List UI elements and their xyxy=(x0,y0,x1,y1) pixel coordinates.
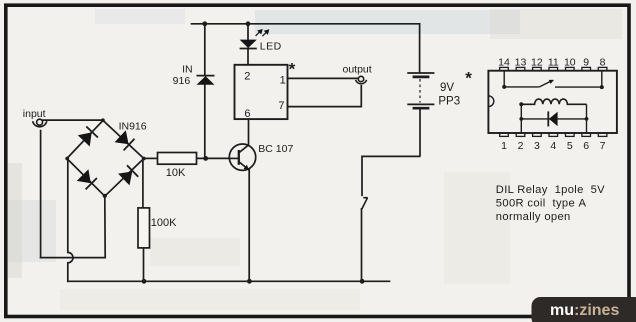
arm left-top xyxy=(67,120,103,158)
svg-text:500R coil type A: 500R coil type A xyxy=(496,198,587,210)
svg-text:12: 12 xyxy=(531,57,543,69)
relay pin 2 stub xyxy=(520,119,522,133)
svg-text:10K: 10K xyxy=(166,167,186,179)
relay pin numbers 1..7 xyxy=(501,140,606,152)
wire: top positive rail xyxy=(192,23,420,25)
relay clamp diode line xyxy=(521,118,586,120)
wire: relay pin1 to output tip xyxy=(288,77,359,79)
svg-text:*: * xyxy=(289,60,296,79)
svg-text:7: 7 xyxy=(278,100,284,112)
wire coil right to diode line xyxy=(586,104,588,119)
input jack SK1 xyxy=(33,119,47,127)
svg-text:4: 4 xyxy=(550,140,556,152)
svg-text:5: 5 xyxy=(567,140,573,152)
relay package notch xyxy=(488,96,493,107)
mu:zines watermark xyxy=(532,297,636,322)
relay RLA schematic box xyxy=(235,65,288,119)
svg-text:100K: 100K xyxy=(151,217,177,229)
svg-text:IN916: IN916 xyxy=(119,120,147,132)
bridge diode D4 (bottom->right) xyxy=(118,165,138,185)
LED LD1 symbol xyxy=(240,40,257,49)
transistor Q1 BC107 xyxy=(229,144,255,170)
resistor R2 100K xyxy=(138,208,150,248)
wire: battery positive drop xyxy=(419,24,421,72)
svg-text:9: 9 xyxy=(583,57,589,69)
wire: R1 to Q1 base xyxy=(197,157,230,159)
svg-text:9V: 9V xyxy=(440,82,454,94)
svg-text:11: 11 xyxy=(548,57,559,69)
resistor R1 10K xyxy=(158,153,197,165)
Q1 emitter arrow xyxy=(244,165,249,170)
relay contact stub from pin 8 xyxy=(601,71,603,87)
svg-text:1: 1 xyxy=(280,74,286,86)
wire: input sleeve run to bridge bottom node xyxy=(41,196,106,257)
svg-text:BC 107: BC 107 xyxy=(258,143,293,155)
LED lead from rail xyxy=(247,24,249,40)
svg-text:LED: LED xyxy=(260,41,282,53)
svg-text:2: 2 xyxy=(518,140,524,152)
svg-text:8: 8 xyxy=(600,57,606,69)
svg-text:10: 10 xyxy=(564,57,576,69)
wire: input sleeve down xyxy=(40,131,42,258)
svg-text:normally open: normally open xyxy=(496,211,571,223)
bridge rectifier arms xyxy=(67,120,144,196)
svg-text:6: 6 xyxy=(244,108,250,120)
wire: input tip to bridge top node xyxy=(43,119,103,121)
relay clamp diode symbol xyxy=(547,111,549,126)
arm left-bottom xyxy=(67,159,105,197)
svg-text:14: 14 xyxy=(498,57,510,69)
arm bottom-right xyxy=(105,159,144,197)
wire: Q1 emitter to bottom rail xyxy=(248,170,250,281)
relay contact switch xyxy=(504,80,602,87)
svg-text:13: 13 xyxy=(515,57,527,69)
svg-text:3: 3 xyxy=(534,140,540,152)
switch S1 xyxy=(362,198,368,209)
svg-text:1: 1 xyxy=(501,140,507,152)
relay package outline xyxy=(488,71,617,133)
LED light arrows xyxy=(256,30,269,36)
svg-text:DIL Relay 1pole 5V: DIL Relay 1pole 5V xyxy=(496,184,605,196)
battery B1 9V PP3 xyxy=(407,73,434,156)
diode D5 IN916 symbol xyxy=(197,76,215,85)
wire coil left to diode line xyxy=(520,104,522,119)
wire: bottom common rail xyxy=(68,280,390,282)
wire: R2 top lead xyxy=(142,159,144,208)
relay pin numbers 14..8 xyxy=(498,57,606,69)
svg-text:7: 7 xyxy=(600,140,606,152)
diode D5 IN916 clamp: anode lead xyxy=(204,24,206,76)
relay top pin tabs (14..8) xyxy=(500,67,607,70)
svg-text:output: output xyxy=(343,64,372,76)
relay contact stub from pin 14 xyxy=(503,71,505,87)
wire: battery negative to switch xyxy=(362,156,420,195)
junction dots on rails xyxy=(65,21,364,283)
svg-text:mu:zines: mu:zines xyxy=(550,302,619,319)
svg-text:6: 6 xyxy=(583,140,589,152)
relay pin 6 stub xyxy=(586,119,588,133)
wire: switch to bottom rail xyxy=(361,209,363,281)
wire: relay pin7 to output sleeve xyxy=(288,86,362,107)
svg-text:2: 2 xyxy=(244,71,250,83)
bridge diode D1 (left->top) xyxy=(78,127,98,147)
svg-text:PP3: PP3 xyxy=(438,96,460,108)
relay bottom pin tabs (1..7) xyxy=(500,133,607,136)
wire: bridge left node to bottom rail with hop xyxy=(68,159,73,282)
output jack SK2 xyxy=(356,76,367,84)
bridge diode D3 (left->bottom) xyxy=(77,169,97,189)
bridge diode D2 (top->right) xyxy=(115,130,135,150)
wire: Q1 collector to relay pin6 xyxy=(248,119,250,145)
wire: R2 bottom lead xyxy=(143,248,145,281)
relay coil between pins 2 and 6 xyxy=(521,99,586,104)
arm top-right xyxy=(103,120,144,158)
wire: bridge right node to R1 xyxy=(144,157,158,159)
svg-text:input: input xyxy=(23,108,46,120)
svg-text:916: 916 xyxy=(173,75,191,87)
svg-text:*: * xyxy=(465,69,472,88)
